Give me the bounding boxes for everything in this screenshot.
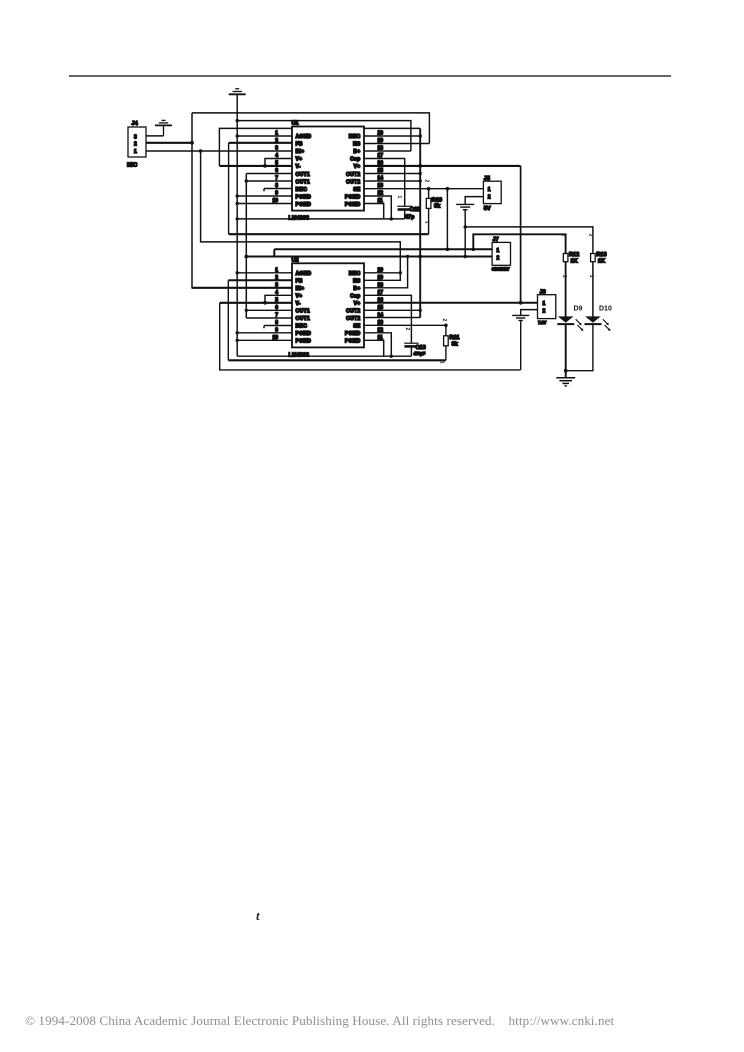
svg-text:OUT1: OUT1 <box>296 316 311 322</box>
wire U2 pin16 V+ thick to J6 <box>364 302 538 304</box>
ground symbol at J6 <box>512 315 529 320</box>
svg-text:PGND: PGND <box>345 331 361 337</box>
wire U2 pin13 SE to R11 <box>364 324 446 326</box>
svg-text:J5: J5 <box>484 176 490 182</box>
svg-text:SE: SE <box>353 187 361 193</box>
node junction (246.3,310.3) <box>245 309 248 312</box>
node junction (420.2,165.9) <box>418 164 422 168</box>
svg-text:2: 2 <box>441 319 447 322</box>
svg-text:470pF: 470pF <box>414 351 426 356</box>
svg-text:B+: B+ <box>353 286 360 292</box>
node junction (420.2,310.3) <box>419 309 422 312</box>
wire U1 feedback loop bottom thick y=234.2 <box>229 233 429 235</box>
U1 right pin numbers 20-11 <box>378 131 384 205</box>
wire riser x=274.3 <box>273 249 275 256</box>
node junction (447.4,188.7) <box>446 187 450 191</box>
ground symbol at J4 <box>155 120 172 135</box>
wire U1 pin15 OUT2 <box>364 173 420 175</box>
svg-text:V+: V+ <box>296 157 303 163</box>
svg-text:PGND: PGND <box>296 202 312 208</box>
wire U2 FB drop x=228.3 <box>227 280 229 360</box>
U1 left pin numbers 1-10 <box>272 131 278 205</box>
svg-text:J7: J7 <box>493 237 499 243</box>
wire U1 pin19 NS <box>364 143 429 145</box>
node junction (265,302.8) <box>263 301 267 305</box>
wire U1 pin7 OUT1 <box>246 180 292 182</box>
svg-text:3: 3 <box>275 146 278 152</box>
svg-text:NS: NS <box>353 278 361 284</box>
svg-text:PGND: PGND <box>296 331 312 337</box>
wire U2 IN+ segment thick <box>192 287 292 289</box>
ground (earth) symbol top, AGND <box>229 89 246 95</box>
node junction (428.6,188.7) <box>427 187 431 191</box>
wire U2 pin9 PGND <box>237 332 292 334</box>
svg-text:FB: FB <box>296 278 303 284</box>
wire AGND branch line y=356.2 <box>237 355 411 357</box>
LED D9 <box>557 306 583 332</box>
node junction (400.3,272.8) <box>399 271 402 274</box>
svg-text:OUT2: OUT2 <box>346 179 361 185</box>
node junction (237.2,340.3) <box>236 339 239 342</box>
svg-text:AGND: AGND <box>296 134 312 140</box>
svg-text:2: 2 <box>404 328 410 331</box>
svg-text:1: 1 <box>488 187 491 193</box>
wire J4 pin2 thick to bus x=192 <box>146 142 192 144</box>
svg-text:Cap: Cap <box>350 293 360 299</box>
svg-text:3k: 3k <box>434 204 441 210</box>
wire J4 pin3 to ground <box>146 135 164 137</box>
svg-text:J4: J4 <box>132 121 139 127</box>
wire U2 pin2 FB thick <box>228 279 292 281</box>
node junction (473.3,249.3) <box>472 248 476 252</box>
wire AGND vertical bus x=237.2 <box>236 94 238 356</box>
wire U2 pin7 OUT1 <box>246 317 292 319</box>
wire U2 pin8 BNC stub <box>264 325 292 327</box>
svg-text:SIDEKEY: SIDEKEY <box>492 267 510 272</box>
wire U2 pin15 OUT2 <box>364 309 420 311</box>
node junction (237.2,218.9) <box>236 217 239 220</box>
wire U2 pin6 OUT1 <box>246 309 292 311</box>
wire OUT1 vertical bus x=246.3 <box>245 174 247 319</box>
svg-text:Cap: Cap <box>350 157 360 163</box>
svg-text:BNC: BNC <box>296 324 308 330</box>
svg-text:PGND: PGND <box>345 202 361 208</box>
node junction (265,165.9) <box>263 164 267 168</box>
svg-text:1K: 1K <box>598 258 605 264</box>
svg-text:1: 1 <box>396 196 402 199</box>
wire J5 pin2 to ground <box>465 197 483 205</box>
node junction (246.3,256.5) <box>244 255 248 259</box>
wire U1 V- loop top y=128.4 <box>219 128 420 166</box>
wire U1 pin5 V- thick <box>219 165 292 167</box>
wire GND rail y=226.9 to R13 <box>465 227 593 254</box>
svg-text:1K: 1K <box>571 258 578 264</box>
svg-text:IN+: IN+ <box>296 149 305 155</box>
wire U1 pin9 PGND <box>237 195 292 197</box>
op-amp / audio amplifier IC U1 LM4863 <box>289 121 365 222</box>
svg-text:PGND: PGND <box>296 194 312 200</box>
svg-text:R12: R12 <box>569 252 579 258</box>
svg-text:2: 2 <box>488 194 491 200</box>
wire U2 pin5 V- thick <box>220 302 292 304</box>
wire U1 pin16 V+ thick <box>364 165 521 167</box>
node junction (200.6,151) <box>199 149 203 153</box>
svg-text:1: 1 <box>497 248 500 254</box>
wire U1 pin18 B+ <box>364 150 411 152</box>
wire U2 pin11 PGND drop <box>364 340 384 356</box>
svg-text:PGND: PGND <box>296 339 312 345</box>
svg-text:1: 1 <box>543 301 546 307</box>
svg-text:LM4863: LM4863 <box>289 352 310 358</box>
connector J4 <box>127 121 146 169</box>
wire D10 cathode down and over <box>566 324 593 371</box>
node junction (246.3,181) <box>245 179 249 183</box>
svg-text:47p: 47p <box>405 215 415 221</box>
svg-text:D10: D10 <box>599 306 612 313</box>
svg-text:2: 2 <box>588 234 594 237</box>
wire U1 pin18 loop y=120.6 <box>237 121 411 151</box>
connector J7 SIDEKEY <box>492 237 511 271</box>
wire U2 pin14 OUT2 <box>364 317 420 319</box>
svg-text:R13: R13 <box>596 252 606 258</box>
wire U2 pin17 Cap to C13 <box>364 295 411 343</box>
svg-text:2: 2 <box>497 256 500 262</box>
node junction (237.2,136) <box>236 134 239 137</box>
audio amplifier IC U2 LM4863 <box>289 257 365 358</box>
node junction (447.4,249.3) <box>446 248 450 252</box>
wire SIDEKEY line S2 thick y=249.3 <box>274 248 492 250</box>
svg-text:V-: V- <box>296 164 301 170</box>
svg-text:AGND: AGND <box>296 271 312 277</box>
svg-text:2: 2 <box>424 180 430 183</box>
wire U1 pin1 AGND <box>237 135 292 137</box>
svg-text:3: 3 <box>134 134 137 140</box>
wire U1 pin14 OUT2 <box>364 180 420 182</box>
ground symbol at J5 <box>456 204 474 209</box>
capacitor C11 47p <box>396 196 420 221</box>
svg-text:BNC: BNC <box>349 271 361 277</box>
capacitor C13 470pF <box>404 328 426 357</box>
wire U2 pin20 tee <box>364 272 400 274</box>
wire U1 pin19 top loop y=112.9 <box>192 113 429 144</box>
node junction (391.3,356.2) <box>390 355 393 358</box>
wire U1 pin6 OUT1 <box>246 173 292 175</box>
svg-text:C13: C13 <box>416 345 426 351</box>
node junction (420.2,136) <box>419 134 422 137</box>
svg-text:D9: D9 <box>574 306 583 313</box>
wire R12 feed rail thick y=234.3 <box>473 234 565 253</box>
wire OUT line S3 thick y=256.5 <box>246 256 492 258</box>
t annotation <box>256 908 260 924</box>
U2 left pin labels <box>296 271 312 345</box>
node junction (520.6,302.8) <box>519 301 523 305</box>
wire OUT2 / V+ vertical bus x=420.2 <box>419 128 421 317</box>
svg-text:R10: R10 <box>432 197 442 203</box>
svg-text:1: 1 <box>424 221 430 224</box>
svg-text:2: 2 <box>560 234 566 237</box>
svg-text:1: 1 <box>588 275 594 278</box>
wire ground rail down x=465.2 <box>464 210 466 257</box>
svg-text:1: 1 <box>134 149 137 155</box>
resistor R10 3k <box>424 180 443 235</box>
wire ground riser x=520.6 to outer bottom <box>520 321 522 370</box>
svg-text:5V: 5V <box>484 206 491 212</box>
svg-text:BNC: BNC <box>296 187 308 193</box>
node junction (420.2,173.5) <box>419 172 422 175</box>
node junction (237.2,120.6) <box>236 119 239 122</box>
wire J4 pin1 to U1 IN+ y=151 <box>146 150 292 152</box>
svg-text:U1: U1 <box>292 121 299 127</box>
wire D9 cathode down to ground <box>565 324 567 378</box>
resistor R13 1K <box>588 234 607 317</box>
wire U2 V- down and outer bottom <box>220 303 521 370</box>
wire U2 pin12 PGND drop <box>364 333 391 356</box>
node junction (420.2,181) <box>419 179 422 182</box>
resistor R12 1K <box>560 234 579 317</box>
svg-text:OUT2: OUT2 <box>346 309 361 315</box>
wire U1 pin4 V+ jog <box>265 159 292 166</box>
wire J5 pin1 <box>447 188 483 190</box>
wire FB drop x=228.6 <box>228 143 230 234</box>
svg-text:2: 2 <box>543 308 546 314</box>
wire U1 pin17 Cap to C11 <box>364 159 405 207</box>
U2 left pin numbers 1-10 <box>272 268 278 342</box>
resistor R11 3k <box>439 319 460 364</box>
svg-text:3k: 3k <box>452 341 459 347</box>
svg-text:OUT2: OUT2 <box>346 316 361 322</box>
wire U2 pin4 V+ jog <box>265 295 292 303</box>
svg-text:C11: C11 <box>410 207 420 213</box>
wire U1 pin11 PGND drop <box>364 204 384 219</box>
node junction (465.2,226.9) <box>464 225 467 228</box>
wire U1 pin13 / J5 pin1 link vertical x=447.4 <box>446 189 448 250</box>
svg-text:2: 2 <box>134 142 137 148</box>
svg-text:IN+: IN+ <box>296 286 305 292</box>
svg-text:V+: V+ <box>296 293 303 299</box>
svg-text:V+: V+ <box>354 301 361 307</box>
svg-text:PGND: PGND <box>345 339 361 345</box>
wire U1 pin20 BNC <box>364 135 420 137</box>
wire U2 pin18 B+ riser <box>364 257 408 288</box>
wire U2 feedback loop bottom thick y=360.3 <box>228 359 446 361</box>
top horizontal rule <box>69 75 671 77</box>
footer copyright <box>25 1013 744 1029</box>
ground symbol bottom right <box>556 378 575 386</box>
node junction (237.2,203.5) <box>236 202 239 205</box>
wire J4 pin1 branch down x=200.6 to U2 NS route <box>201 151 401 280</box>
node junction (237.2,272.8) <box>236 271 239 274</box>
svg-text:OUT2: OUT2 <box>346 172 361 178</box>
svg-text:OUT1: OUT1 <box>296 309 311 315</box>
svg-text:V-: V- <box>296 301 301 307</box>
wire U2 pin10 PGND <box>237 339 292 341</box>
wire J6 pin2 to ground <box>521 310 538 316</box>
U1 right pin labels <box>345 134 361 208</box>
svg-text:U2: U2 <box>292 257 299 263</box>
svg-text:OUT1: OUT1 <box>296 179 311 185</box>
svg-text:R11: R11 <box>450 335 460 341</box>
svg-text:BNC: BNC <box>349 134 361 140</box>
node junction (407.6,256.5) <box>406 255 409 258</box>
node junction (237.2,196) <box>236 194 239 197</box>
node junction (391.3,218.9) <box>390 217 393 220</box>
svg-text:FB: FB <box>296 142 303 148</box>
U2 right pin numbers 20-11 <box>378 268 384 342</box>
LED D10 <box>585 306 612 332</box>
svg-text:B+: B+ <box>353 149 360 155</box>
connector J5 <box>483 176 501 212</box>
connector J6 battery 7.2V <box>538 290 556 326</box>
wire V+ vertical x=520.6 from U1 pin16 to J6 pin1 <box>520 166 522 303</box>
svg-text:MIC: MIC <box>127 163 137 169</box>
svg-text:19: 19 <box>378 275 384 281</box>
node junction (565.7,370.7) <box>564 369 568 373</box>
wire U1 pin10 PGND <box>237 203 292 205</box>
svg-text:V+: V+ <box>354 164 361 170</box>
svg-text:7.2V: 7.2V <box>538 320 547 325</box>
svg-text:20: 20 <box>378 268 384 274</box>
node junction (420.2,256.5) <box>418 255 422 259</box>
svg-text:3: 3 <box>275 283 278 289</box>
svg-text:OUT1: OUT1 <box>296 172 311 178</box>
svg-text:1: 1 <box>561 275 567 278</box>
node junction (192,142.8) <box>190 141 194 145</box>
node junction (445.9,325.3) <box>444 324 448 328</box>
wire AGND branch line y=218.9 <box>237 218 405 220</box>
node junction (465.2,256.5) <box>463 255 467 259</box>
wire U1 pin2 FB thick <box>229 142 292 144</box>
node junction (237.2,332.8) <box>236 331 239 334</box>
U2 right pin labels <box>345 271 361 345</box>
wire U2 pin1 AGND <box>237 272 292 274</box>
svg-text:J6: J6 <box>540 290 546 296</box>
svg-text:PGND: PGND <box>345 194 361 200</box>
U1 left pin labels <box>296 134 312 208</box>
wire U1 pin8 BNC stub <box>264 188 292 190</box>
svg-text:NS: NS <box>353 142 361 148</box>
wire U1 pin13 SE <box>364 188 447 190</box>
wire bus x=192 down to U2 IN+ <box>192 113 292 288</box>
svg-text:SE: SE <box>353 324 361 330</box>
wire U1 pin12 PGND drop <box>364 196 391 219</box>
